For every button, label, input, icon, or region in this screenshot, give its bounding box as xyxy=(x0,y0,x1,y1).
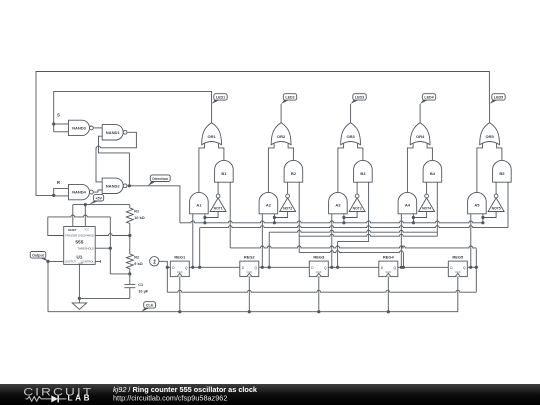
junction CLK at REG1 xyxy=(178,310,181,313)
svg-text:http://circuitlab.com/cfsp9u58: http://circuitlab.com/cfsp9u58az962 xyxy=(113,394,227,403)
wire NOT3 output to B3 left input xyxy=(356,182,358,194)
node S xyxy=(52,122,55,125)
wire bus L2: REG1 Q to B5 right input xyxy=(200,226,508,228)
svg-text:A2: A2 xyxy=(266,203,272,208)
and-gate B2 xyxy=(284,160,303,182)
wire B3 output to OR3 right input xyxy=(358,144,363,161)
resistor R2 9k xyxy=(126,254,133,269)
svg-text:LED2: LED2 xyxy=(285,96,294,100)
wire OR2 output riser xyxy=(280,104,282,123)
junction direction bus stage 2 xyxy=(273,221,276,224)
flip-flop REG4 xyxy=(379,261,398,277)
and-gate A2 xyxy=(259,192,278,213)
svg-text:OR5: OR5 xyxy=(485,134,494,139)
svg-text:NOT4: NOT4 xyxy=(422,207,431,211)
or-gate OR3 xyxy=(341,123,361,145)
svg-text:A4: A4 xyxy=(405,203,411,208)
wire NOT5 input tee xyxy=(483,212,496,218)
svg-text:REG2: REG2 xyxy=(244,255,256,260)
svg-text:REG4: REG4 xyxy=(383,255,395,260)
svg-text:LED4: LED4 xyxy=(424,96,433,100)
resistor R1 10k xyxy=(129,205,131,208)
footer bar xyxy=(0,384,540,405)
NAND gate NAND2 xyxy=(102,178,123,193)
wire 555 GND to ground xyxy=(78,264,80,303)
wire NAND3 out to NAND1 in xyxy=(94,127,103,129)
wire REG5 Q line xyxy=(467,266,476,268)
wire NOT1 input tee xyxy=(205,212,218,218)
outer feedback wire: OR5 output to latch R input (frame) xyxy=(36,72,489,196)
and-gate A4 xyxy=(398,192,417,213)
junction CLK at REG3 xyxy=(317,310,320,313)
inverter NOT5 xyxy=(488,198,504,212)
junction direction bus stage 5 xyxy=(481,221,484,224)
svg-text:A3: A3 xyxy=(335,203,341,208)
inverter NOT4 xyxy=(419,198,435,212)
svg-text:Direction: Direction xyxy=(152,177,168,181)
wire OR4 output riser xyxy=(419,104,421,123)
wire NOT2 output to B2 left input xyxy=(287,182,289,194)
junction NOT1 input xyxy=(203,216,206,219)
svg-text:REG1: REG1 xyxy=(174,255,186,260)
wire REG1 Q elbow xyxy=(199,228,201,268)
and-gate B4 xyxy=(423,160,442,182)
svg-text:NOT5: NOT5 xyxy=(492,207,501,211)
wire NOT5 output to B5 left input xyxy=(495,182,497,194)
wire C1 bottom to ground net xyxy=(79,297,129,299)
wire OR5 output riser xyxy=(489,104,491,123)
junction CLK at REG4 xyxy=(387,310,390,313)
wire A3 output to OR3 left input xyxy=(338,144,344,193)
wire A2 right input to direction bus xyxy=(273,214,275,223)
svg-text:OR1: OR1 xyxy=(207,134,216,139)
svg-text:THRESHOLD: THRESHOLD xyxy=(77,246,94,250)
wire Q lines between flip-flops xyxy=(189,266,240,268)
svg-text:TRIGGER: TRIGGER xyxy=(65,234,77,238)
wire NOT2 input tee xyxy=(274,212,287,218)
svg-text:A5: A5 xyxy=(474,203,480,208)
wire A3 right input to direction bus xyxy=(343,214,345,223)
svg-text:NAND1: NAND1 xyxy=(106,130,121,135)
junction direction bus stage 3 xyxy=(342,221,345,224)
flag +5V xyxy=(89,200,100,205)
node R xyxy=(52,194,55,197)
wire bus L3b xyxy=(299,234,437,236)
svg-text:R: R xyxy=(57,180,61,185)
svg-text:NOT1: NOT1 xyxy=(214,207,223,211)
flag LED1 xyxy=(212,99,221,104)
svg-text:B5: B5 xyxy=(499,171,505,176)
or-gate OR1 xyxy=(202,123,222,145)
and-gate B3 xyxy=(354,160,373,182)
svg-text:NOT3: NOT3 xyxy=(353,207,362,211)
wire 1-source to REG1 D xyxy=(159,261,167,267)
wire B4 output to OR4 right input xyxy=(427,144,432,161)
wire riser to 555 VCC xyxy=(84,205,86,227)
and-gate A1 xyxy=(190,192,209,213)
svg-text:S: S xyxy=(57,113,60,118)
svg-text:RESET: RESET xyxy=(68,228,77,232)
wire B3 right input riser xyxy=(368,182,370,241)
svg-text:NAND3: NAND3 xyxy=(72,126,87,131)
svg-text:OUTPUT: OUTPUT xyxy=(65,260,76,264)
wire NOT3 input tee xyxy=(344,212,357,218)
junction direction bus stage 1 xyxy=(203,221,206,224)
junction R2 bottom / C1 top xyxy=(128,272,131,275)
flag Direction xyxy=(148,181,157,186)
svg-text:OR4: OR4 xyxy=(416,134,425,139)
wire bus lane: REG3 Q to B3 right input xyxy=(338,241,369,243)
junction on NAND2 output xyxy=(128,184,131,187)
svg-text:NOT2: NOT2 xyxy=(283,207,292,211)
flip-flop REG1 xyxy=(170,261,189,277)
and-gate B5 xyxy=(493,160,512,182)
svg-text:R1: R1 xyxy=(134,210,139,214)
flag CLK xyxy=(142,307,151,312)
wire A4 right input to direction bus xyxy=(412,214,414,223)
wire A1 output to OR1 left input xyxy=(199,144,205,193)
wire NAND2 out to NAND1 lower in (cross-couple) xyxy=(99,136,130,186)
svg-text:OR3: OR3 xyxy=(346,134,355,139)
wire A4 output to OR4 left input xyxy=(407,144,413,193)
wire A1 right input to direction bus xyxy=(204,214,206,223)
and-gate A3 xyxy=(329,192,348,213)
svg-text:R2: R2 xyxy=(134,256,139,260)
wire A-left inputs down to Q lines xyxy=(192,214,194,267)
inverter NOT1 xyxy=(210,198,226,212)
wire R stub xyxy=(54,188,69,195)
wire OR3 output riser xyxy=(350,104,352,123)
wire B2 right input riser xyxy=(298,182,300,252)
and-gate B1 xyxy=(215,160,234,182)
junction NOT4 input xyxy=(412,216,415,219)
or-gate OR4 xyxy=(410,123,430,145)
svg-text:REG3: REG3 xyxy=(313,255,325,260)
wire 555 trigger-threshold loop xyxy=(48,215,111,217)
svg-text:LAB: LAB xyxy=(68,394,93,403)
wire NOT4 input tee xyxy=(413,212,426,218)
wire REG2 Q elbow xyxy=(268,232,270,267)
svg-text:GND: GND xyxy=(78,263,83,265)
NAND gate NAND3 xyxy=(69,120,90,135)
flip-flop REG3 xyxy=(309,261,328,277)
svg-text:Output: Output xyxy=(32,253,45,257)
inverter NOT3 xyxy=(349,198,365,212)
svg-text:kj92 / Ring counter 555 oscill: kj92 / Ring counter 555 oscillator as cl… xyxy=(113,385,258,394)
svg-text:1: 1 xyxy=(153,259,156,265)
svg-text:LED1: LED1 xyxy=(216,96,225,100)
NAND gate NAND4 xyxy=(69,184,90,199)
wire A2 output to OR2 left input xyxy=(268,144,274,193)
svg-text:+5V: +5V xyxy=(95,196,102,200)
wire NOT4 output to B4 left input xyxy=(426,182,428,194)
svg-text:B4: B4 xyxy=(430,171,436,176)
junction NOT2 input xyxy=(273,216,276,219)
wire REG3 Q elbow xyxy=(337,242,339,268)
wire bus L3: REG2 Q to B4 right input xyxy=(269,230,437,232)
NAND gate NAND1 xyxy=(102,125,123,140)
wire B5 output to OR5 right input xyxy=(497,144,502,161)
svg-text:LED5: LED5 xyxy=(494,96,503,100)
junction NOT5 input xyxy=(481,216,484,219)
logo resistor zigzag xyxy=(26,397,52,402)
wire direction bus L1 xyxy=(180,221,483,223)
svg-text:NAND4: NAND4 xyxy=(72,190,87,195)
junction direction bus stage 4 xyxy=(412,221,415,224)
flag LED5 xyxy=(490,99,499,104)
wire B4 right input riser xyxy=(436,182,438,236)
logic input 1 source xyxy=(150,257,159,266)
wire B5 right input riser xyxy=(507,182,509,227)
wire: OR1 output feedback to latch S input xyxy=(54,91,212,131)
wire CONTROL stub xyxy=(95,260,100,262)
svg-text:B2: B2 xyxy=(291,171,297,176)
svg-text:NAND2: NAND2 xyxy=(106,183,121,188)
junction CLK at REG2 xyxy=(248,310,251,313)
wire B2 output to OR2 right input xyxy=(288,144,293,161)
svg-text:A1: A1 xyxy=(196,203,202,208)
flip-flop REG5 xyxy=(448,261,467,277)
svg-text:CLK: CLK xyxy=(146,303,154,307)
wire B1 right input riser xyxy=(229,182,231,248)
ground xyxy=(72,303,86,310)
svg-text:10 kΩ: 10 kΩ xyxy=(134,216,144,220)
svg-text:REG5: REG5 xyxy=(452,255,464,260)
flip-flop REG2 xyxy=(240,261,259,277)
svg-text:B3: B3 xyxy=(360,171,366,176)
wire ring feedback REG5 Q to REG1 D xyxy=(166,267,168,292)
+5V supply net wire xyxy=(73,204,130,206)
wire riser to 555 RESET xyxy=(72,205,74,227)
wire OR1 output riser xyxy=(211,104,213,123)
wire NAND1 out to NAND2 upper in (cross-couple) xyxy=(96,132,136,182)
junction +5V xyxy=(84,203,87,206)
flag LED2 xyxy=(281,99,290,104)
wire NAND4 out to NAND2 in xyxy=(94,190,103,192)
junction NOT3 input xyxy=(342,216,345,219)
logo diode xyxy=(51,395,58,402)
wire B1 output to OR1 right input xyxy=(219,144,224,161)
svg-text:B1: B1 xyxy=(221,171,227,176)
or-gate OR2 xyxy=(271,123,291,145)
wire S stub xyxy=(54,123,69,125)
svg-text:DISCHARGE: DISCHARGE xyxy=(78,234,94,238)
svg-text:VCC: VCC xyxy=(84,230,89,232)
wire A5 output to OR5 left input xyxy=(477,144,483,193)
flag LED3 xyxy=(351,99,360,104)
wire bus L5: B2 right input to REG4 Q xyxy=(299,251,403,253)
svg-text:555: 555 xyxy=(75,239,83,245)
svg-text:10 µF: 10 µF xyxy=(138,289,148,293)
wire 555 OUTPUT to CLK net xyxy=(48,261,64,311)
capacitor C1 10uF xyxy=(124,283,135,285)
or-gate OR5 xyxy=(480,123,500,145)
flag LED4 xyxy=(420,99,429,104)
wire A5 right input to direction bus xyxy=(482,214,484,223)
wire THRESHOLD to loop xyxy=(95,247,110,249)
wire NOT1 output to B1 left input xyxy=(217,182,219,194)
wire bus L4: B1 right input to REG5 Q xyxy=(230,246,476,248)
and-gate A5 xyxy=(468,192,487,213)
svg-text:OR2: OR2 xyxy=(277,134,286,139)
wire DISCHARGE to R1/R2 node xyxy=(95,234,130,236)
svg-text:9 kΩ: 9 kΩ xyxy=(134,262,142,266)
svg-text:C1: C1 xyxy=(138,283,143,287)
op 555 timer U1 box xyxy=(64,227,95,265)
flag Output xyxy=(39,257,48,261)
wire CLK bus to flip-flop clocks xyxy=(48,277,458,312)
wire drop to REG4 Q xyxy=(402,253,404,268)
wire NAND2 output to Direction net / L1 bus xyxy=(127,186,179,223)
wire flip-flop clock risers xyxy=(179,277,181,312)
svg-text:LED3: LED3 xyxy=(355,96,364,100)
svg-text:U1: U1 xyxy=(76,254,82,260)
inverter NOT2 xyxy=(280,198,296,212)
